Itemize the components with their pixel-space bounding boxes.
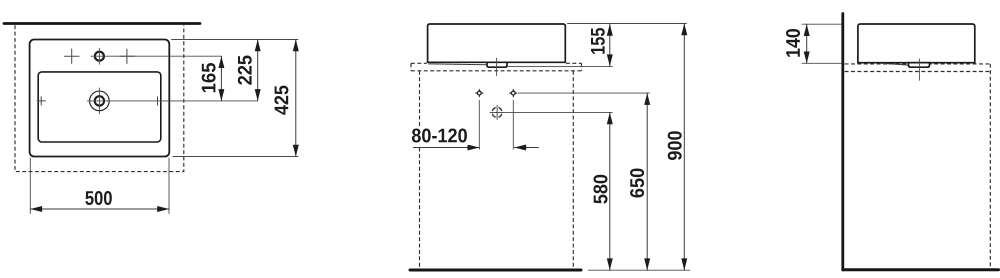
dim 140 label xyxy=(786,29,800,57)
drain tab centerline (front) xyxy=(496,58,498,75)
drain centerline vertical xyxy=(98,88,100,114)
dim 225 line xyxy=(257,40,259,101)
drain tab (front) xyxy=(487,62,507,67)
dim 80-120 lines xyxy=(413,147,479,149)
dim 900 line xyxy=(683,24,685,271)
water supply symbol right xyxy=(510,89,517,96)
faucet hole extension line to 165 dim xyxy=(91,55,221,57)
dim 80-120 label background xyxy=(410,128,469,146)
dim 425 label xyxy=(274,86,288,115)
basin outline (side view) xyxy=(858,24,975,63)
dim 900 label xyxy=(668,131,682,160)
dim 580 label xyxy=(594,175,608,204)
dim 80-120 label xyxy=(412,129,467,143)
basin outer rim (top view) xyxy=(30,40,170,157)
dim 155 line xyxy=(609,24,611,66)
dim 165 label xyxy=(202,63,216,92)
alt faucet position cross left xyxy=(64,49,79,64)
drain inner circle xyxy=(95,96,104,105)
drain outer circle xyxy=(90,91,110,111)
bottom extension line for 140 dim xyxy=(802,62,841,64)
basin top extension line to 900 dim xyxy=(568,23,687,25)
dim 580 line xyxy=(609,112,611,270)
dim 500 line xyxy=(30,208,169,210)
extension verticals for 500 dim xyxy=(29,158,31,214)
water supply symbol left xyxy=(476,89,483,96)
countertop hidden outline (dashed, top view) xyxy=(15,25,184,171)
basin outline (front view) xyxy=(428,24,566,62)
drain symbol (front) xyxy=(490,105,504,119)
basin bowl (top view) xyxy=(38,72,161,142)
faucet hole centerline vertical xyxy=(98,48,100,64)
dim 165 line xyxy=(220,56,222,101)
floor line (side view) xyxy=(843,268,999,271)
dim 155 label xyxy=(591,28,605,54)
basin underside slope line (front) xyxy=(429,63,487,66)
top extension line for 140 dim xyxy=(802,23,841,25)
basin underside slope line (side) xyxy=(880,63,909,65)
alt faucet position cross right xyxy=(120,49,135,64)
supply drop line right xyxy=(512,100,514,149)
faucet hole xyxy=(95,52,104,61)
counter dashed top edge (front) xyxy=(411,62,582,64)
counter dashed side edges (front) xyxy=(411,63,582,71)
dim 425 line xyxy=(295,40,297,157)
pedestal dashed right edge (front) xyxy=(572,71,574,268)
bottom rim extension line xyxy=(173,156,298,158)
floor extension line xyxy=(588,269,690,271)
bowl edge cross right xyxy=(157,97,159,105)
dim 500 label xyxy=(85,191,111,205)
drain extension line to 580 dim xyxy=(505,111,613,113)
dim 650 label xyxy=(630,169,644,198)
wall line (top view) xyxy=(4,22,200,25)
bowl edge cross left xyxy=(37,97,45,105)
wall line (side view) xyxy=(841,14,844,271)
bottom extension line for 155 dim xyxy=(508,65,612,67)
drain extension line to 225 dim xyxy=(87,100,257,102)
floor line (front view) xyxy=(410,269,581,272)
pedestal dashed left edge (front) xyxy=(419,71,421,268)
dim 650 line xyxy=(646,93,648,270)
pedestal dashed right edge (side) xyxy=(989,64,991,268)
counter dashed top edge (side) xyxy=(845,63,991,65)
supply extension line to 650 dim xyxy=(518,92,649,94)
top rim extension line xyxy=(172,39,299,41)
dim 140 line xyxy=(806,24,808,63)
drain tab centerline (side) xyxy=(918,59,920,80)
supply drop line left xyxy=(478,100,480,149)
drain tab (side) xyxy=(909,63,930,67)
counter dashed bottom edge (front) xyxy=(411,70,582,72)
counter dashed bottom edge (side) xyxy=(845,71,991,73)
dim 225 label xyxy=(238,56,252,85)
